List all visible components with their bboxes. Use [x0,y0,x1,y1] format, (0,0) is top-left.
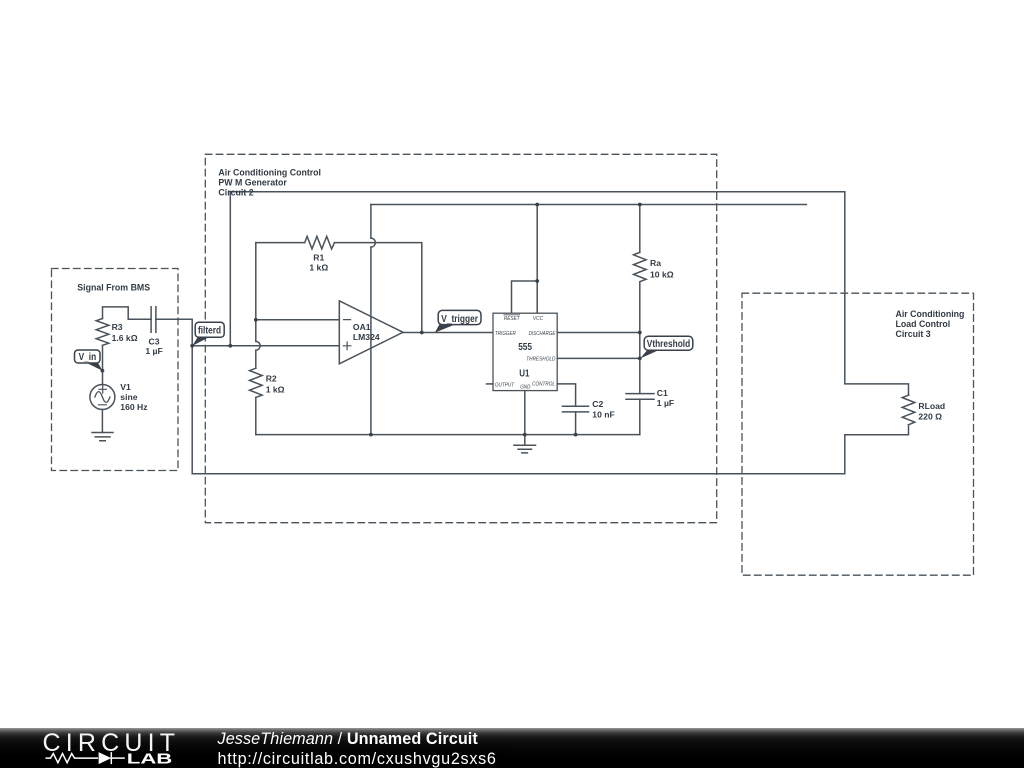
svg-text:C1: C1 [657,388,668,398]
wire: R2 bottom to ground rail [255,397,257,434]
svg-text:R1: R1 [313,253,324,263]
wire: rail1 left drop to filterd net [229,192,231,346]
wire: 555 CONTROL to C2 [557,384,575,406]
voltage source V1 [90,385,115,410]
wire: filterd net to op-amp + input [192,345,339,347]
junction: V_in node [101,369,105,373]
svg-text:10 kΩ: 10 kΩ [650,270,674,280]
ground (555) [514,435,536,453]
wire: V1 bottom to ground [101,410,103,433]
svg-text:sine: sine [120,392,137,402]
capacitor C3 [151,307,156,333]
flag filterd [192,322,224,346]
wire: C1 bottom to ground rail [639,399,641,434]
junction: RESET/VCC branch [535,279,539,283]
wire: 555 supply from rail2 [512,205,538,314]
svg-text:TRIGGER: TRIGGER [495,331,517,337]
resistor R3 [96,319,109,346]
footer bar [0,728,1024,768]
wire: 555 DISCHARGE to Ra bottom node [557,332,640,334]
svg-text:V_trigger: V_trigger [441,314,478,325]
svg-text:220 Ω: 220 Ω [918,412,942,422]
wire: R1 leads and feedback drop [256,243,422,333]
555 OUTPUT pin stub [487,383,494,385]
svg-text:C3: C3 [149,336,160,346]
wire hop over filterd wire [256,341,260,350]
555 timer U1 body [493,313,557,390]
wire: 555 THRESHOLD to C1 net [557,357,640,359]
flag V_in [75,350,103,371]
capacitor C1 [626,394,654,400]
junction: THRESHOLD / C1 [638,357,642,361]
junction: rail2 drop / ground rail [369,433,373,437]
dashed box: Air Conditioning Control PWM Generator Circuit 2 [205,154,716,522]
svg-text:DISCHARGE: DISCHARGE [529,331,556,337]
555 RESET overline [504,314,520,316]
svg-text:Air Conditioning: Air Conditioning [896,309,965,319]
capacitor C2 [563,406,589,412]
CircuitLab logo [0,728,200,768]
resistor Ra [634,252,647,284]
svg-text:Circuit 3: Circuit 3 [896,329,931,339]
wire: Ra top lead from rail2 [639,205,641,253]
resistor R2 [250,368,263,397]
svg-text:1 kΩ: 1 kΩ [266,385,285,395]
svg-text:THRESHOLD: THRESHOLD [526,357,556,363]
svg-text:10 nF: 10 nF [592,409,614,419]
ground (V1) [92,433,113,441]
svg-text:V1: V1 [120,382,131,392]
svg-text:1 µF: 1 µF [657,398,674,408]
flag Vthreshold [640,336,693,358]
svg-text:filterd: filterd [198,326,221,337]
junction: 555 GND / ground rail [523,433,527,437]
resistor RLoad [902,395,915,425]
wire: inverting input net (left vertical + to op-amp) [256,243,339,320]
svg-text:RLoad: RLoad [918,401,945,411]
op-amp OA1 LM324 [339,301,403,364]
wire: rail1 down to RLoad top [845,192,909,395]
svg-text:Circuit 2: Circuit 2 [218,187,253,197]
svg-text:LAB: LAB [127,751,173,768]
svg-text:Ra: Ra [650,258,661,268]
wire: rail2 drop to bottom rail (with hop over R1 wire) [370,205,372,435]
wire: bottom ground rail [256,434,640,436]
junction: rail2 / Ra [638,203,642,207]
dashed box: Air Conditioning Load Control Circuit 3 [742,293,974,575]
svg-text:LM324: LM324 [353,332,380,342]
svg-text:OA1: OA1 [353,322,371,332]
junction: inverting input node [254,318,258,322]
svg-text:OUTPUT: OUTPUT [495,382,515,388]
svg-text:Air Conditioning Control: Air Conditioning Control [218,167,321,177]
svg-text:GND: GND [520,384,531,390]
wire hop over R1 feedback wire [371,238,376,247]
svg-text:Signal From BMS: Signal From BMS [77,283,150,293]
wire: Ra bottom to DISCHARGE node [639,284,641,332]
svg-text:1.6 kΩ: 1.6 kΩ [112,333,138,343]
wire: C2 bottom to ground rail [575,412,577,435]
junction: rail2 / 555 VCC [535,203,539,207]
junction: filterd node [190,344,194,348]
svg-text:C2: C2 [592,399,603,409]
svg-text:PW M Generator: PW M Generator [218,177,287,187]
wire: 555 GND to ground rail [524,391,526,435]
svg-text:1 µF: 1 µF [145,346,162,356]
wire: R2 path below inverting node (with hop over filterd wire) [255,320,257,368]
wire: op-amp output to 555 TRIGGER [403,332,493,334]
resistor R1 [305,236,335,249]
svg-text:Vthreshold: Vthreshold [647,339,690,350]
svg-text:U1: U1 [519,368,530,379]
svg-text:RESET: RESET [504,316,520,322]
flag V_trigger [435,310,481,332]
junction: DISCHARGE / Ra / C1 [638,331,642,335]
dashed box: Signal From BMS [52,269,179,471]
junction: C2 / ground rail [574,433,578,437]
svg-text:Load Control: Load Control [896,319,951,329]
wire: top rail 2 [371,204,807,206]
wire: R3 top to C3 left plate [103,307,152,319]
svg-text:R3: R3 [112,322,123,332]
svg-text:555: 555 [518,342,532,353]
svg-text:V_in: V_in [79,352,97,363]
svg-text:R2: R2 [266,374,277,384]
wire: top rail 1 [230,191,845,193]
svg-text:VCC: VCC [533,316,544,322]
wire: C1 net vertical [639,333,641,394]
wire: C3 right plate to filterd node [156,319,192,346]
svg-text:160 Hz: 160 Hz [120,402,147,412]
wire: RLoad bottom return to filterd node [192,346,908,474]
svg-text:1 kΩ: 1 kΩ [309,263,328,273]
junction: op-amp output / feedback [420,331,424,335]
svg-text:CONTROL: CONTROL [532,382,555,388]
junction: rail1 drop / filterd wire [228,344,232,348]
wire: R3 bottom to V1 top [102,345,104,384]
